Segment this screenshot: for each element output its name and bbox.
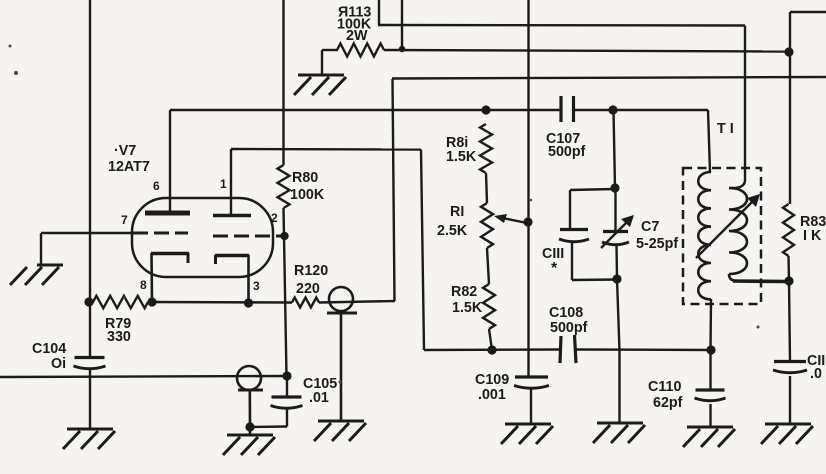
svg-text:.0: .0 (810, 366, 822, 382)
svg-text:1.5K: 1.5K (452, 300, 483, 316)
svg-text:100K: 100K (290, 187, 325, 203)
svg-text:Oi: Oi (51, 356, 66, 372)
svg-text:R120: R120 (294, 263, 328, 279)
svg-text:1: 1 (220, 177, 227, 191)
svg-text:.01: .01 (309, 390, 329, 406)
svg-text:1.5K: 1.5K (446, 149, 477, 165)
svg-text:R80: R80 (292, 170, 318, 186)
svg-text:C110: C110 (648, 379, 681, 395)
svg-text:C7: C7 (641, 219, 659, 235)
svg-text:RI: RI (450, 204, 464, 220)
svg-text:.001: .001 (478, 387, 506, 403)
svg-text:500pf: 500pf (550, 320, 588, 336)
svg-text:7: 7 (121, 213, 128, 227)
svg-text:500pf: 500pf (548, 144, 586, 160)
svg-text:2.5K: 2.5K (437, 223, 468, 239)
svg-text:8: 8 (140, 278, 147, 292)
svg-text:2: 2 (271, 211, 278, 225)
svg-text:C108: C108 (549, 305, 583, 321)
svg-text:I K: I K (803, 228, 822, 244)
svg-text:C109: C109 (475, 372, 509, 388)
svg-text:2W: 2W (346, 28, 368, 44)
svg-text:·V7: ·V7 (114, 143, 136, 159)
svg-text:C104: C104 (32, 341, 66, 357)
svg-text:12AT7: 12AT7 (108, 159, 150, 175)
svg-text:*: * (551, 260, 558, 277)
svg-text:T I: T I (717, 121, 734, 137)
svg-text:R82: R82 (451, 284, 477, 300)
svg-text:220: 220 (296, 281, 320, 297)
svg-text:3: 3 (253, 279, 260, 293)
svg-text:5-25pf: 5-25pf (636, 236, 678, 252)
svg-text:330: 330 (107, 329, 131, 345)
svg-text:62pf: 62pf (653, 395, 683, 411)
svg-text:6: 6 (153, 179, 160, 193)
